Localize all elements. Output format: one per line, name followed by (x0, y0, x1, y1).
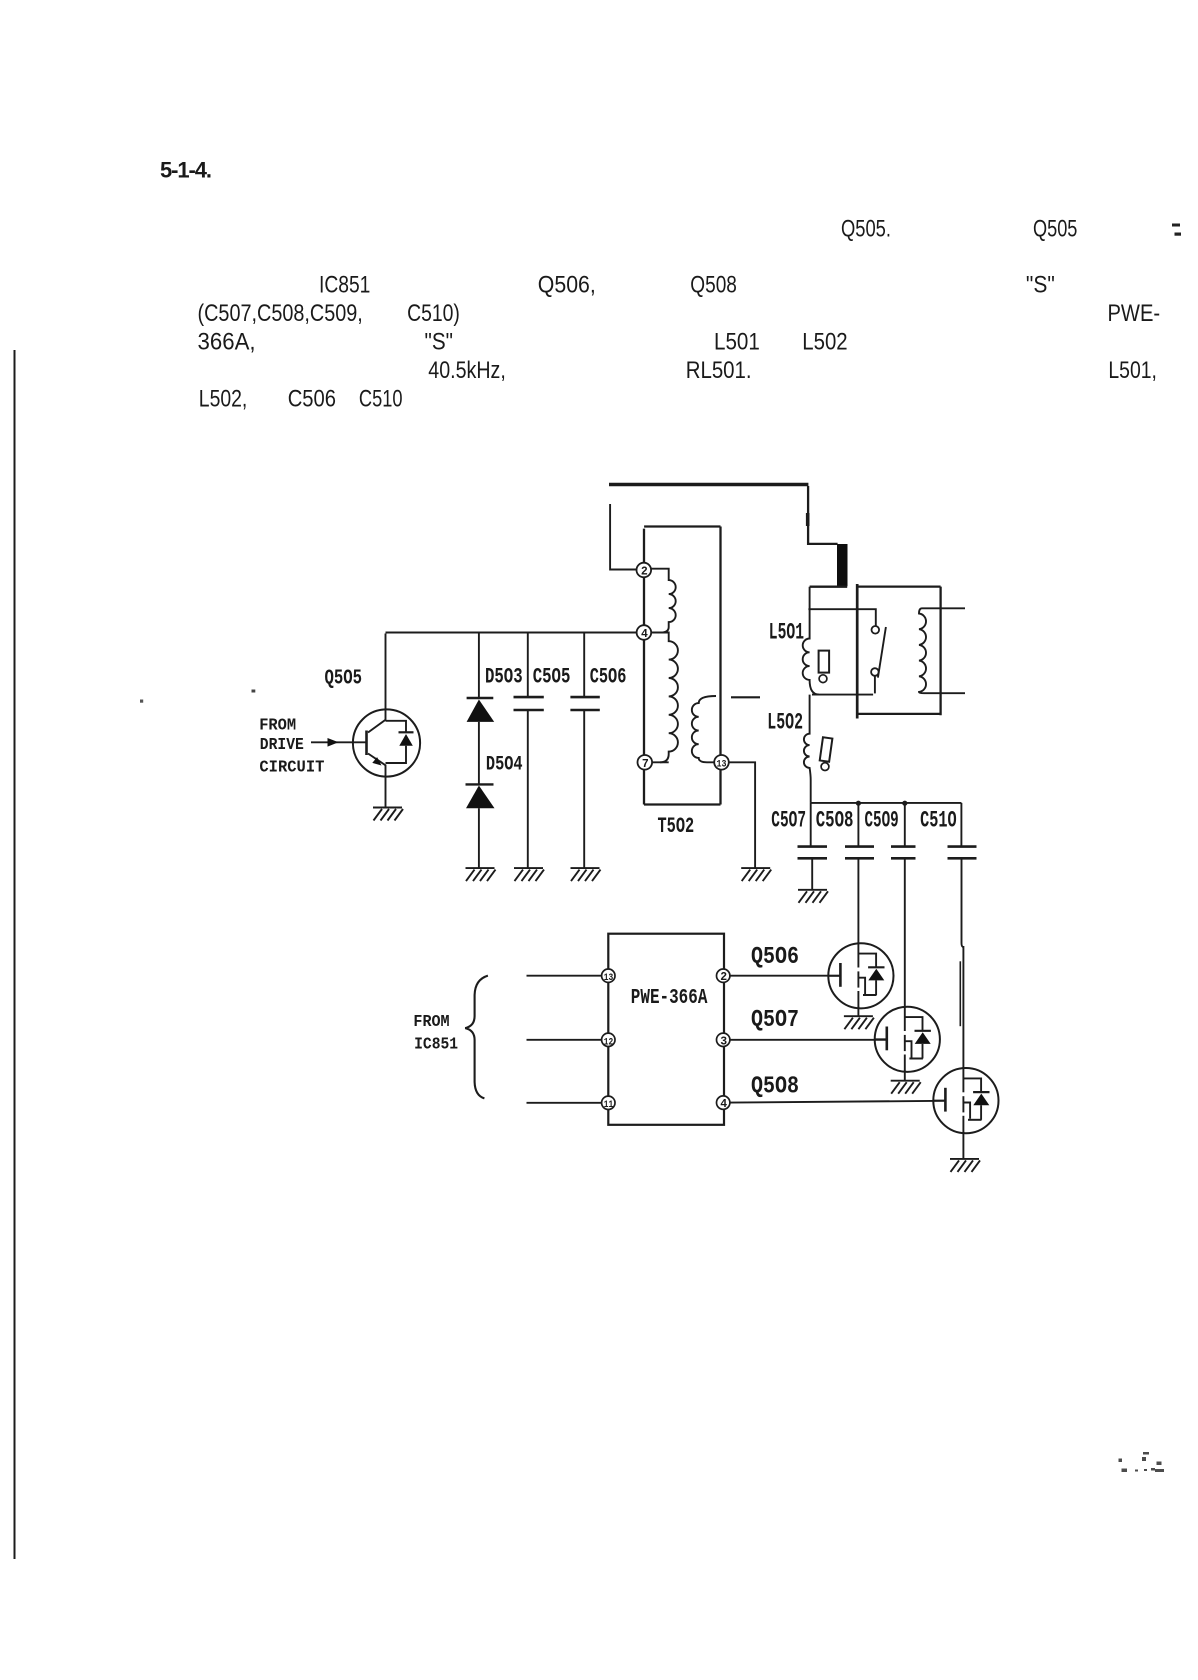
svg-text:40.5kHz,: 40.5kHz, (428, 357, 506, 384)
svg-text:C5O5: C5O5 (533, 664, 571, 689)
T502 secondary winding (651, 633, 678, 763)
svg-text:C51O: C51O (920, 807, 957, 833)
doubled line segment near C510 (959, 961, 961, 1026)
input wire to pin 12 (527, 1039, 602, 1041)
wire T502 pin13 to ground (729, 762, 755, 868)
junction dot C508 (856, 801, 861, 806)
relay switch arm (878, 627, 886, 678)
wire rail right drop to bead (808, 486, 838, 544)
T502 pin 2 (637, 563, 652, 578)
svg-text:Q5O6: Q5O6 (751, 944, 799, 971)
ground Q507 (891, 1081, 921, 1094)
top rail (609, 483, 808, 486)
ground Q505 (373, 808, 403, 821)
wire L501 bottom to relay bottom contact (812, 694, 873, 696)
svg-text:2: 2 (641, 566, 648, 579)
svg-text:3: 3 (720, 1036, 727, 1049)
svg-text:C5O6: C5O6 (590, 664, 627, 689)
pin circle 11 (602, 1096, 615, 1109)
stray dot near Q505 (252, 690, 256, 693)
floating dash (731, 696, 760, 698)
relay bottom contact wire (874, 676, 876, 694)
diode D504 (478, 722, 480, 785)
relay coil (919, 608, 965, 693)
T502 pin 7 (638, 755, 653, 770)
svg-text:L5O2: L5O2 (767, 710, 803, 736)
ground C506 (571, 868, 601, 881)
input wire to pin 13 (527, 975, 602, 977)
input wire to pin 11 (527, 1102, 602, 1104)
relay switch top contact (872, 626, 880, 634)
source wire Q506 to ground (857, 1007, 859, 1017)
source wire Q507 to ground (904, 1071, 906, 1081)
capacitor C508 (857, 803, 859, 847)
svg-text:C5O7: C5O7 (771, 807, 806, 833)
svg-text:13: 13 (717, 760, 727, 771)
drain wire C510 to Q508 (962, 858, 964, 1069)
main bus Q505 collector to T502 pin 4 (386, 632, 637, 634)
T502 tertiary winding (692, 696, 716, 762)
svg-text:L502,: L502, (199, 386, 248, 413)
svg-text:Q5O5: Q5O5 (325, 667, 363, 690)
svg-text:C506: C506 (288, 386, 336, 413)
svg-text:L502: L502 (802, 329, 847, 356)
svg-text:CIRCUIT: CIRCUIT (259, 759, 324, 778)
svg-text:IC851: IC851 (414, 1036, 458, 1055)
capacitor C507 (810, 803, 812, 847)
svg-text:D5O4: D5O4 (486, 754, 523, 777)
T502 primary winding (651, 569, 676, 633)
output wire pin 2 to Q506 gate (730, 975, 840, 977)
mosfet Q507 (875, 1006, 940, 1072)
wire T502 pin 7 to secondary (652, 761, 669, 763)
svg-text:L501: L501 (714, 329, 760, 356)
svg-text:Q505.: Q505. (841, 216, 891, 243)
svg-text:PWE-366A: PWE-366A (631, 987, 708, 1010)
svg-text:(C507,C508,C509,: (C507,C508,C509, (198, 300, 363, 327)
ground Q506 (844, 1016, 874, 1029)
svg-text:7: 7 (642, 758, 649, 771)
wire bead to L501 top (810, 586, 848, 588)
svg-text:DRIVE: DRIVE (260, 736, 304, 755)
svg-text:Q505: Q505 (1033, 216, 1077, 243)
capacitor C505 (527, 633, 529, 698)
svg-text:5-1-4.: 5-1-4. (160, 158, 212, 183)
svg-text:366A,: 366A, (198, 329, 256, 356)
output wire pin 3 to Q507 gate (730, 1039, 886, 1041)
svg-text:Q506,: Q506, (538, 271, 596, 298)
wire rail-stub down to T502 pin 2 (610, 504, 637, 570)
svg-text:C5O8: C5O8 (816, 807, 854, 833)
L502 core (820, 737, 833, 761)
svg-text:C510: C510 (359, 386, 403, 413)
ground C507 (798, 890, 828, 903)
svg-text:RL501.: RL501. (686, 357, 752, 384)
relay switch bottom contact (871, 668, 879, 676)
module PWE-366A box (608, 934, 724, 1125)
inductor L502 (804, 695, 811, 803)
svg-text:IC851: IC851 (319, 271, 370, 298)
svg-text:12: 12 (604, 1038, 614, 1049)
pin circle 2 (717, 969, 730, 982)
svg-text:"S": "S" (1026, 271, 1055, 298)
brace FROM IC851 (465, 976, 488, 1099)
svg-text:4: 4 (720, 1098, 727, 1111)
relay RL501 box (856, 584, 859, 719)
svg-text:FROM: FROM (413, 1013, 449, 1032)
svg-text:C510): C510) (407, 300, 460, 327)
capacitor C506 (583, 633, 585, 698)
ground D504 (466, 868, 496, 881)
T502 pin 4 (637, 625, 652, 640)
ground Q508 (950, 1159, 980, 1172)
svg-text:11: 11 (604, 1100, 614, 1111)
left margin rule (14, 350, 16, 1559)
diode D503 (478, 633, 480, 700)
svg-text:13: 13 (604, 973, 614, 984)
mosfet Q506 (828, 943, 893, 1009)
svg-text:L5O1: L5O1 (769, 620, 804, 646)
svg-text:Q508: Q508 (690, 271, 737, 298)
capacitor C509 (904, 803, 906, 847)
capacitor bus C507-C510 (811, 802, 962, 804)
svg-text:Q5O7: Q5O7 (751, 1007, 799, 1034)
svg-text:2: 2 (720, 971, 727, 984)
ferrite bead (black bar) (837, 544, 848, 586)
pin circle 12 (602, 1033, 615, 1046)
svg-text:"S": "S" (425, 329, 454, 356)
transformer T502 outline (644, 527, 721, 805)
source wire Q508 to ground (962, 1132, 964, 1159)
pin circle 3 (717, 1033, 730, 1046)
transistor Q505 (353, 709, 420, 776)
junction dot C509 (902, 801, 907, 806)
stray mark top right (1172, 224, 1181, 236)
inductor L501 (803, 587, 819, 695)
drain wire C509 to Q507 (904, 858, 906, 1007)
capacitor C510 (960, 803, 962, 847)
mosfet Q508 (933, 1068, 998, 1134)
smudge specks bottom right (1119, 1452, 1165, 1472)
pin circle 4 (717, 1096, 730, 1109)
ground C505 (514, 868, 544, 881)
svg-text:FROM: FROM (259, 716, 296, 735)
drain wire C508 to Q506 (857, 858, 859, 943)
L501 core (819, 651, 830, 673)
svg-text:T5O2: T5O2 (658, 814, 695, 839)
svg-text:Q5O8: Q5O8 (751, 1073, 799, 1100)
T502 pin 13 (714, 755, 729, 770)
ground T502 pin13 wire (741, 868, 771, 881)
relay top wire to switch contact (808, 609, 875, 626)
pin circle 13 (602, 969, 615, 982)
svg-text:PWE-: PWE- (1108, 300, 1161, 327)
svg-text:4: 4 (641, 628, 648, 641)
stray dot left (140, 700, 143, 703)
svg-text:C5O9: C5O9 (865, 807, 899, 833)
svg-text:D5O3: D5O3 (485, 664, 523, 689)
svg-text:L501,: L501, (1108, 357, 1157, 384)
output wire pin 4 to Q508 gate (730, 1101, 945, 1103)
